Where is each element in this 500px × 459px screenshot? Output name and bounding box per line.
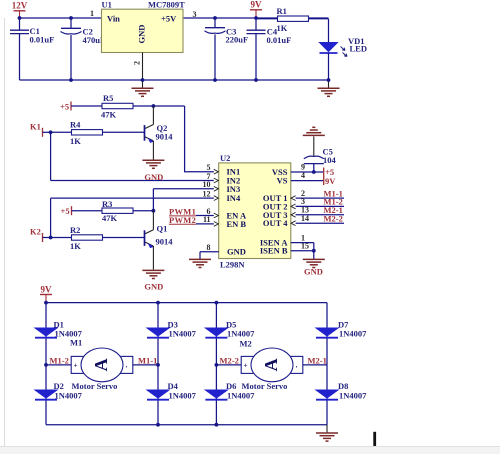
svg-text:4: 4 [301,171,305,180]
svg-text:+: + [74,362,78,370]
svg-text:M2: M2 [240,339,252,349]
svg-text:R3: R3 [102,199,112,209]
svg-text:+5: +5 [61,206,70,216]
svg-text:3: 3 [193,10,197,19]
svg-text:K2: K2 [30,227,41,237]
svg-text:Q1: Q1 [157,224,168,234]
svg-text:Motor Servo: Motor Servo [242,381,288,391]
svg-text:9V: 9V [251,0,263,10]
svg-text:9014: 9014 [156,237,174,247]
svg-text:+: + [244,362,248,370]
svg-text:+5: +5 [60,101,69,111]
svg-text:14: 14 [301,214,309,223]
svg-text:9014: 9014 [156,131,174,141]
svg-text:K1: K1 [30,122,41,132]
svg-text:104: 104 [323,155,337,165]
svg-text:Vin: Vin [107,13,120,23]
svg-text:9V: 9V [41,284,53,294]
svg-text:1N4007: 1N4007 [227,390,255,400]
svg-text:A: A [91,358,111,371]
svg-text:LED: LED [350,44,367,54]
svg-text:10: 10 [203,180,211,189]
svg-text:M1-2: M1-2 [50,355,69,365]
svg-text:M2-2: M2-2 [220,355,239,365]
svg-text:M1: M1 [70,338,82,348]
svg-text:12V: 12V [12,1,28,11]
svg-text:M1-1: M1-1 [138,355,157,365]
svg-text:GND: GND [137,25,147,44]
svg-text:220uF: 220uF [226,35,249,45]
svg-text:R1: R1 [277,6,287,16]
svg-text:GND: GND [227,247,246,257]
svg-text:2: 2 [133,61,142,65]
svg-text:12: 12 [203,189,211,198]
svg-text:5: 5 [207,163,211,172]
svg-text:.: . [126,361,128,370]
svg-text:1K: 1K [70,241,81,251]
svg-text:M2-2: M2-2 [324,214,343,224]
svg-text:47K: 47K [102,213,118,223]
svg-text:M2-1: M2-1 [308,355,327,365]
svg-text:L298N: L298N [220,260,245,270]
svg-text:R2: R2 [70,225,80,235]
svg-text:U2: U2 [220,153,230,163]
svg-text:+5V: +5V [161,13,177,23]
svg-text:47K: 47K [101,110,117,120]
svg-text:PWM2: PWM2 [169,215,196,225]
svg-text:U1: U1 [102,0,112,9]
svg-text:1N4007: 1N4007 [55,390,83,400]
svg-text:GND: GND [144,282,163,292]
svg-text:A: A [261,358,281,371]
svg-text:1N4007: 1N4007 [227,329,255,339]
svg-text:Motor Servo: Motor Servo [72,381,118,391]
svg-text:R5: R5 [103,93,113,103]
svg-text:1: 1 [90,9,94,18]
svg-text:0.01uF: 0.01uF [267,35,292,45]
svg-text:GND: GND [144,172,163,182]
svg-text:15: 15 [301,242,309,251]
svg-text:R4: R4 [70,120,81,130]
svg-text:EN B: EN B [227,219,247,229]
svg-text:1K: 1K [70,136,81,146]
svg-text:1N4007: 1N4007 [339,390,367,400]
svg-text:GND: GND [304,267,323,277]
svg-text:1N4007: 1N4007 [169,390,197,400]
svg-text:0.01uF: 0.01uF [30,35,55,45]
svg-text:ISEN B: ISEN B [260,246,288,256]
svg-text:9V: 9V [325,176,336,186]
svg-text:MC7809T: MC7809T [148,0,185,9]
svg-text:1N4007: 1N4007 [339,329,367,339]
svg-text:8: 8 [207,243,211,252]
svg-text:OUT 4: OUT 4 [263,218,288,228]
svg-text:1K: 1K [277,23,288,33]
svg-text:11: 11 [203,215,211,224]
svg-text:.: . [296,361,298,370]
svg-text:VS: VS [277,176,288,186]
svg-text:1N4007: 1N4007 [169,329,197,339]
svg-text:IN4: IN4 [227,193,241,203]
